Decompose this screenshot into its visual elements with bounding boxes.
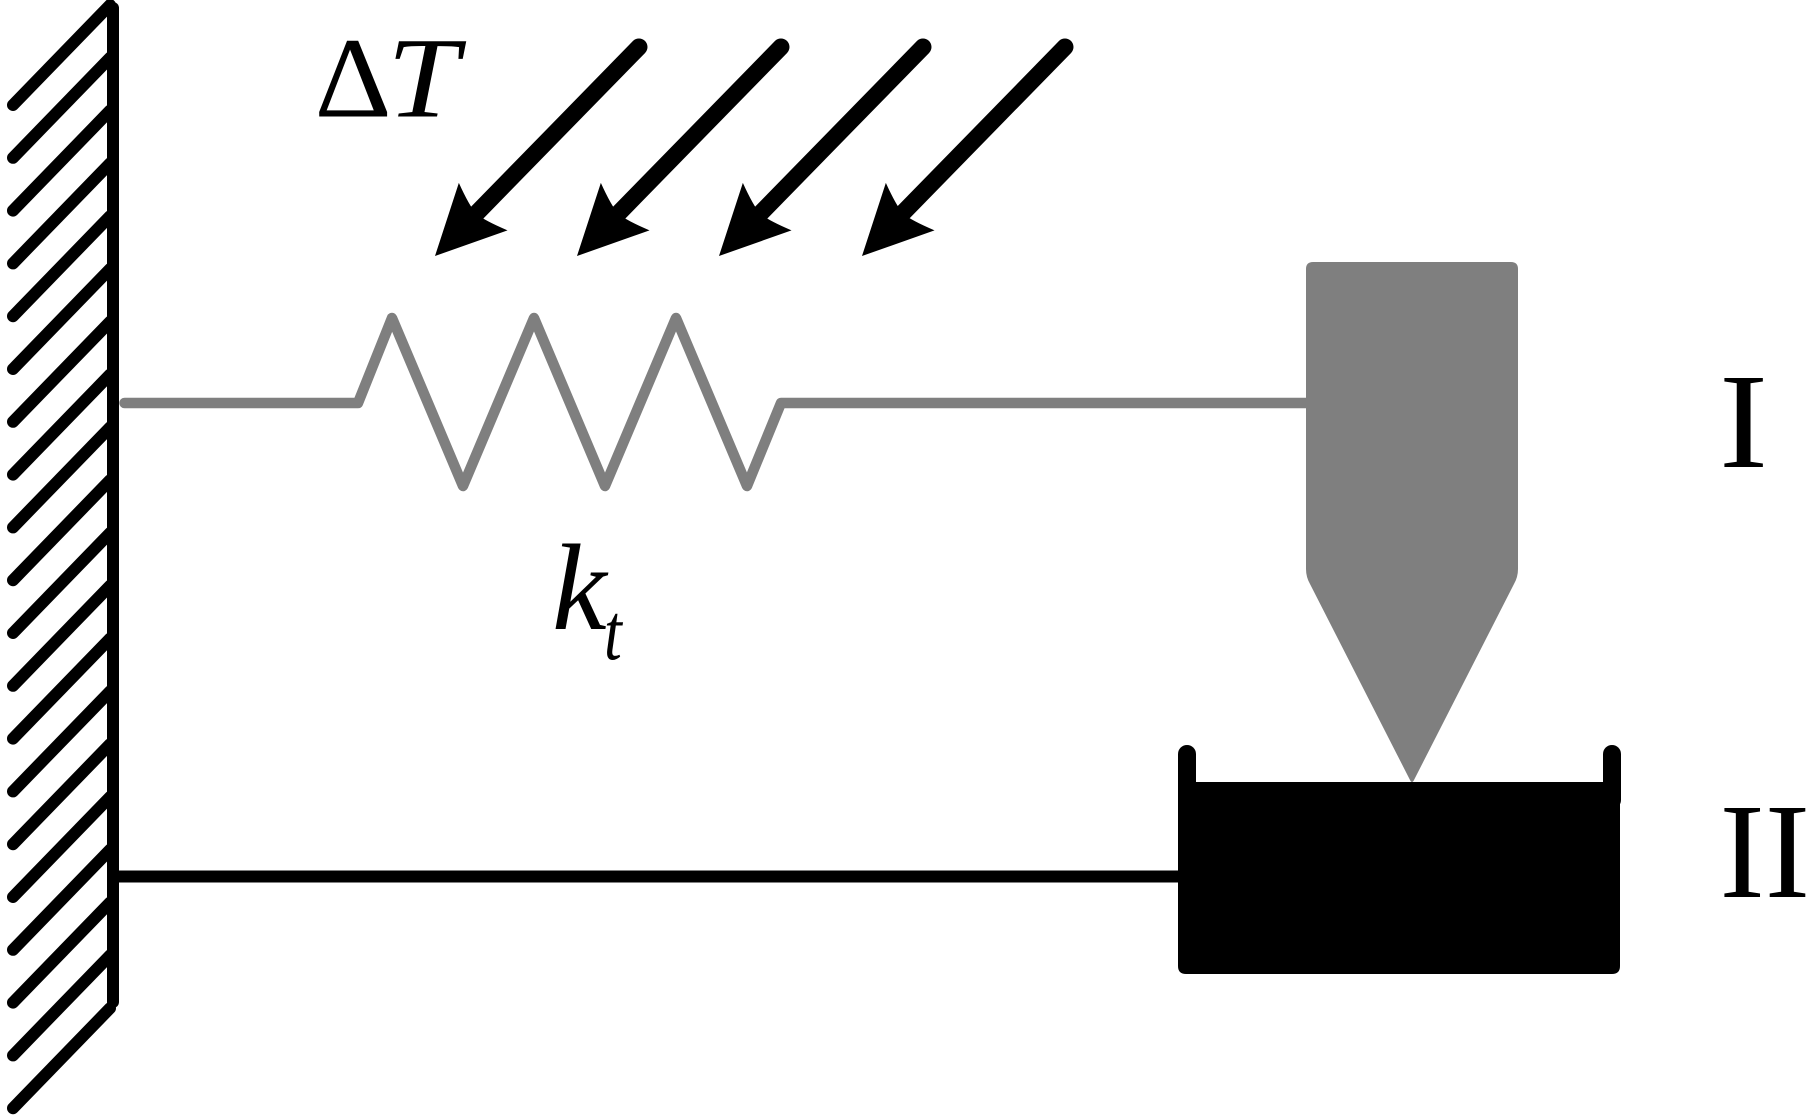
beam II (black rod) [119,871,1185,883]
probe I (gray stylus) [1306,262,1518,782]
wall vertical line [107,8,119,1002]
svg-text:t: t [604,587,623,676]
heat arrow 1 shaft [470,47,639,220]
svg-text:k: k [552,519,609,656]
heat arrow 4 shaft [896,47,1065,220]
heat arrow 1 head [411,183,508,280]
container [1178,782,1620,974]
spring kt [125,318,1311,486]
wall hatching [13,5,110,1108]
heat arrow 3 head [695,183,792,280]
container left rim post [1178,754,1196,800]
svg-text:T: T [387,15,467,142]
heat arrow 2 head [553,183,650,280]
svg-text:Δ: Δ [315,16,392,142]
heat arrow 4 head [838,183,935,280]
heat arrow 2 shaft [612,47,781,220]
svg-text:I: I [1719,346,1768,497]
svg-text:II: II [1720,777,1808,927]
container right rim post [1603,754,1621,800]
heat arrow 3 shaft [754,47,923,220]
